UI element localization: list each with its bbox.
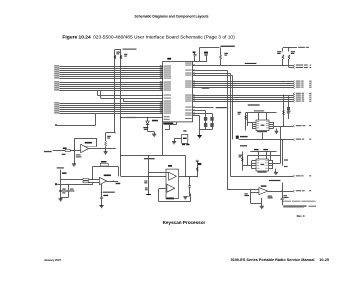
resistor R41 labels: [144, 181, 147, 182]
net label VOL input: [44, 151, 52, 152]
speaker D5: [236, 136, 239, 139]
capacitor C48: [282, 191, 284, 198]
wire U7 output EXT_SPKR: [268, 191, 293, 193]
net label 3R3_SOL_3 mid-left: [126, 117, 136, 118]
wire lower input: [57, 184, 93, 186]
junction dots group A: [282, 81, 283, 82]
labels C/R below input: [76, 154, 81, 155]
resistor R23: [105, 133, 107, 141]
wire input plus: [251, 192, 259, 194]
resistor network RN1: [205, 111, 207, 130]
wire run to audio col A: [193, 70, 228, 72]
wire mic bias top: [250, 151, 276, 153]
IC U3 lower-left pin names: [164, 115, 170, 118]
wire top input: [61, 179, 83, 181]
U5 left pin stubs: [252, 161, 257, 169]
wire net label stub: [282, 183, 284, 192]
tiny label lower join: [55, 124, 57, 126]
label D2 partnum: [143, 127, 148, 128]
wire SE_SOUT: [239, 139, 293, 141]
T2 loop wire: [158, 189, 160, 202]
net label 3R3_SOL_3 top left: [123, 49, 137, 50]
capacitor C42 label: [254, 149, 259, 150]
wire run to audio col C: [193, 75, 233, 77]
power rail 3R3 top: [200, 47, 220, 49]
wire U6 out to MIC/SPK+: [274, 126, 294, 128]
labels right of mic block: [284, 159, 288, 160]
resistor R38: [242, 152, 244, 171]
label U4B: [104, 175, 111, 177]
step wire b: [100, 91, 102, 99]
wire SER_SOL_3: [193, 65, 294, 67]
resistor R45: [244, 193, 247, 194]
resistor R37 label: [263, 149, 268, 150]
resistor R50: [197, 161, 199, 177]
feedback wire U4B: [92, 166, 118, 168]
U5 part label: [257, 172, 266, 173]
audio rail left pair: [245, 113, 247, 131]
bus group 3 wires: [60, 104, 163, 114]
connector callouts group B: [293, 93, 295, 95]
label Y1: [183, 130, 186, 131]
capacitor C34: [101, 184, 103, 198]
label D2: [152, 120, 158, 122]
connector callout MIC/SPK+: [293, 125, 295, 127]
diode D2: [147, 118, 149, 122]
feedback resistor R33: [100, 163, 108, 166]
bus group 1 wires: [60, 67, 163, 79]
wire input line: [53, 150, 81, 152]
net label GND_SOL3 rail: [57, 167, 64, 168]
small box on rail x288: [288, 97, 290, 119]
feedback wire U7: [250, 189, 252, 204]
wire U5 left to R38: [251, 161, 253, 169]
long vertical audio col A: [227, 71, 229, 190]
ground C34: [99, 206, 103, 208]
svg-text:Schematic Diagrams and Compone: Schematic Diagrams and Component Layouts: [134, 14, 208, 18]
wire input minus: [227, 189, 259, 191]
U8 part label: [166, 198, 174, 200]
resistor R16: [220, 48, 222, 55]
net label 3R3_SOL_3 right: [298, 47, 305, 48]
step wire c: [123, 99, 125, 102]
resistor network RN2: [212, 114, 214, 130]
op-amp U7: [259, 188, 268, 195]
wire pins to resnet: [193, 110, 206, 112]
wire down right: [162, 118, 164, 156]
ground crystal left: [172, 142, 176, 144]
net label 3R3_SOL_3 lower: [144, 158, 155, 159]
capacitor C51: [189, 177, 191, 186]
connector callouts group A: [293, 80, 295, 82]
svg-text:Figure 10.24 023-5500-480/485: Figure 10.24 023-5500-480/485 User Inter…: [62, 35, 235, 41]
long vertical audio col C: [232, 76, 234, 140]
U6 left pin stubs: [252, 123, 256, 129]
wire to ground: [74, 151, 76, 164]
op-amp U4B: [99, 177, 106, 184]
wire corner to keyscan: [118, 167, 120, 177]
wire mic inner loop: [248, 155, 281, 157]
wire keypad int row2: [289, 67, 293, 69]
connector callout EXT_SPKR: [293, 190, 295, 192]
U6 part label: [257, 131, 267, 132]
capacitor C6: [194, 53, 196, 55]
IC U3 right pin-name column: [185, 63, 191, 119]
IC U3 right pin numbers: [193, 65, 195, 116]
U8 refdes: [168, 165, 172, 167]
wires U5 top pins: [258, 152, 260, 160]
wire left rail: [60, 170, 62, 199]
wire mid rail: [122, 117, 163, 119]
step wire a: [97, 91, 99, 96]
wires U5 right verticals: [270, 152, 272, 162]
comparator T2: [167, 184, 175, 192]
wire T1 through line: [179, 176, 198, 178]
ground bar divider: [146, 194, 151, 196]
resistor R18: [288, 48, 290, 52]
capacitor C32: [68, 184, 69, 185]
wire lower join: [57, 125, 96, 127]
wire SPK-: [231, 176, 294, 178]
connector callout KEYPAD_INT: [293, 64, 295, 66]
svg-text:9100-ES Series Portable Radio: 9100-ES Series Portable Radio Service Ma…: [231, 258, 329, 262]
crystal Y1: [182, 134, 188, 143]
wire run to audio col B: [193, 73, 231, 75]
net label GND_SOL_3 above audio: [248, 104, 260, 105]
wire IC bottom pin: [176, 122, 178, 125]
mic amp U5: [256, 159, 269, 171]
label U7B partnum: [268, 196, 273, 197]
resistor pair boxes: [83, 178, 88, 180]
bus group 1 net labels: [54, 65, 59, 78]
net label SER_SOL_3: [245, 63, 257, 64]
note text row: [283, 201, 291, 202]
resistor R39 (right rail): [283, 95, 285, 126]
ground crystal right: [197, 136, 201, 138]
resistor R15: [120, 55, 122, 59]
ground C51: [183, 197, 187, 199]
comparator T1: [169, 172, 177, 180]
resistor R17: [282, 48, 284, 52]
ground mic block: [275, 169, 277, 172]
ground U7: [261, 204, 263, 206]
net label 3R3_SOL_3 stub: [216, 107, 227, 108]
capacitor C7 + label: [206, 56, 208, 62]
wire branch to T1 + divider chain: [148, 156, 150, 195]
resistor R22: [63, 148, 67, 150]
wire from 3R3 rail down: [185, 156, 187, 177]
wires U6 bottom pins: [262, 133, 264, 140]
wire T1 input: [149, 172, 169, 174]
bus group 2 net labels: [54, 81, 59, 90]
label R31: [62, 172, 67, 174]
resistor R40: [245, 115, 247, 120]
net label 3R3_SOL_3 (top mid): [221, 46, 235, 47]
wire vertical to net 3R3_SOL_3 (left column): [114, 50, 116, 133]
U5 right pin stubs: [269, 161, 274, 169]
long vertical audio col B: [230, 74, 232, 177]
wire crystal left: [174, 138, 182, 140]
resistor R14: [114, 55, 116, 59]
net label GND_SOL_3: [269, 180, 281, 181]
IC U3 refdes: [167, 58, 171, 60]
ground circuit1: [72, 164, 76, 166]
feedback loop U4A: [74, 138, 97, 140]
wire IC top to pullup rail: [193, 61, 208, 63]
label U4A: [85, 142, 92, 144]
bus to connector group A: [193, 82, 294, 88]
ground resnet: [198, 136, 202, 138]
wire 3R3 lower rail: [121, 155, 185, 157]
op-amp U4A: [81, 144, 89, 152]
wire 3R3_SOL_3 stub: [193, 107, 214, 109]
svg-text:Rev X: Rev X: [297, 214, 305, 218]
connector callout SE_SOUT: [293, 138, 295, 140]
audio amp U6: [256, 120, 269, 131]
ground R23: [104, 152, 108, 154]
right rails into block2: [280, 126, 282, 163]
label SPEAKER: [240, 136, 248, 137]
net label CAP_ACBR: [254, 110, 264, 111]
U6 right pin stubs: [269, 123, 274, 129]
svg-text:Keyscan Processor: Keyscan Processor: [163, 220, 206, 225]
wires U6 top pins: [258, 113, 260, 121]
left edge tiny label: [55, 183, 57, 185]
power rail top right: [283, 47, 297, 49]
wire crossbar: [106, 132, 115, 134]
wire U6 pins to rails: [252, 122, 254, 128]
capacitor C31: [60, 179, 62, 190]
net label GND_SOL: [116, 183, 121, 185]
wire vertical pullup right column: [120, 50, 122, 177]
connector callout KEYPAD row2: [293, 66, 295, 68]
crystal cap labels: [182, 144, 185, 145]
wire resnet bottom rail: [200, 129, 213, 131]
wire crystal right: [199, 125, 201, 135]
IC U3 part number label: [163, 123, 173, 125]
op IC U3 (keyscan processor): [163, 61, 193, 122]
wire output U4B: [107, 181, 118, 183]
bus group 3 net labels: [54, 102, 59, 113]
wire top tie: [115, 49, 121, 51]
dual op-amp U8 box: [166, 169, 179, 199]
svg-text:January 2007: January 2007: [44, 258, 62, 262]
connector callout SPK-: [293, 175, 295, 177]
resistor R42 labels: [145, 188, 148, 189]
wire output U4A: [89, 148, 115, 150]
IC U3 left pin-name column: [164, 66, 171, 114]
ground D2: [152, 134, 156, 136]
ground U6 right: [276, 129, 278, 132]
ground left rail: [59, 199, 63, 201]
wire D2 to ground: [148, 131, 155, 133]
label under group A: [202, 88, 210, 89]
IC U3 left pin numbers: [160, 65, 162, 113]
net label LOW_CURRENT_SHUTDOWN: [283, 206, 306, 207]
bus to connector group B: [193, 96, 294, 102]
wire cap_acbr top: [246, 112, 277, 114]
bus group 2 wires: [60, 83, 163, 91]
net label GND top-left of block2: [240, 145, 247, 146]
